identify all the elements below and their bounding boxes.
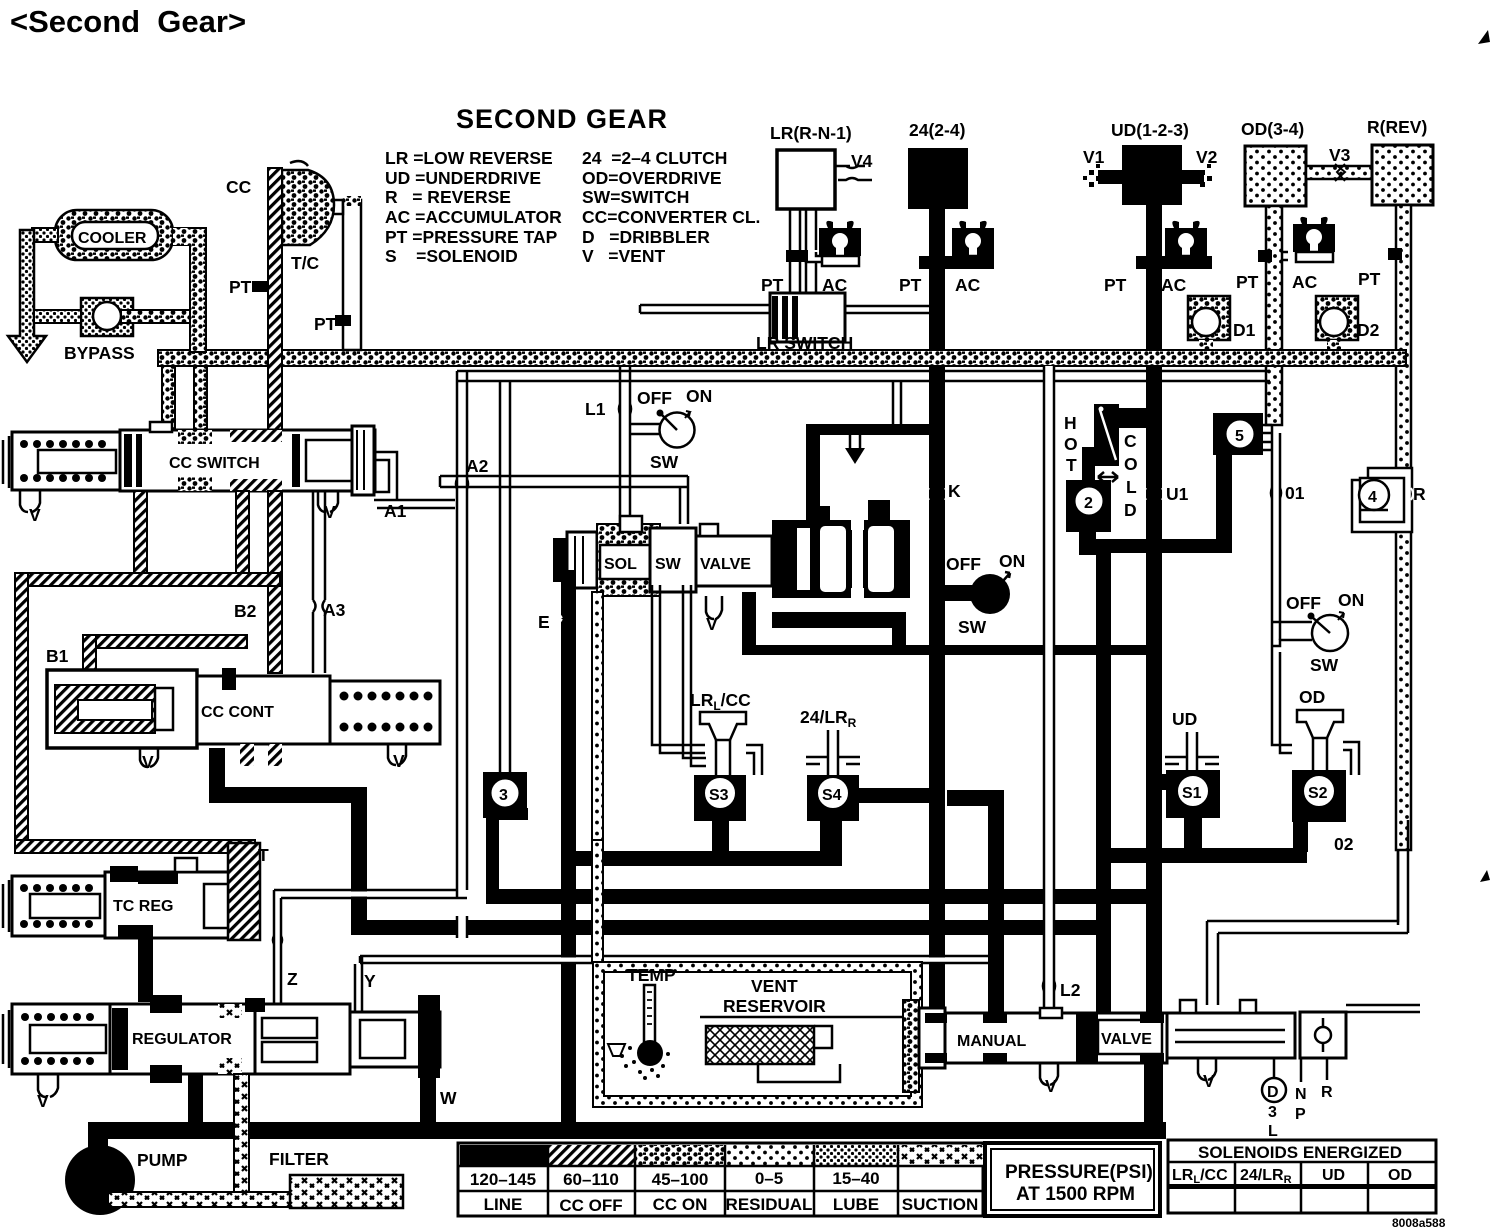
svg-text:UD(1-2-3): UD(1-2-3) bbox=[1111, 120, 1189, 140]
svg-text:V: V bbox=[1203, 1071, 1215, 1091]
svg-text:S =SOLENOID: S =SOLENOID bbox=[385, 246, 518, 266]
TC reg spring perch bbox=[3, 880, 9, 932]
svg-text:TC REG: TC REG bbox=[113, 898, 173, 915]
svg-text:CC: CC bbox=[226, 177, 252, 197]
UD clutch box (black) bbox=[1122, 145, 1182, 205]
L2 thin line bbox=[1045, 366, 1053, 1012]
svg-text:SW: SW bbox=[650, 452, 679, 472]
lube drain arrow bbox=[8, 230, 46, 362]
valve CC CONT bbox=[47, 668, 440, 766]
S1 leg down bbox=[1184, 818, 1202, 854]
svg-text:SECOND GEAR: SECOND GEAR bbox=[456, 104, 668, 134]
svg-text:<Second Gear>: <Second Gear> bbox=[10, 4, 246, 39]
svg-text:OFF: OFF bbox=[946, 554, 981, 574]
svg-text:OFF: OFF bbox=[1286, 593, 1321, 613]
regulator to bottom line black bbox=[188, 1074, 203, 1126]
cooler left lube channel down bbox=[20, 230, 34, 336]
CC hatch line (converter clutch apply) bbox=[268, 168, 282, 432]
svg-text:SOLENOIDS ENERGIZED: SOLENOIDS ENERGIZED bbox=[1198, 1143, 1402, 1162]
LEGEND bbox=[385, 148, 760, 266]
UD AC connector bbox=[1136, 256, 1212, 269]
svg-text:Z: Z bbox=[287, 969, 298, 989]
OD funnel bbox=[1297, 710, 1343, 738]
svg-text:R: R bbox=[1321, 1084, 1333, 1101]
bypass line right (pebble) bbox=[121, 310, 190, 323]
black horizontal y645 bbox=[742, 645, 1162, 655]
svg-text:REGULATOR: REGULATOR bbox=[132, 1031, 232, 1048]
switch SW (overdrive) bbox=[1272, 590, 1364, 675]
thin pair to S3 left bbox=[652, 585, 705, 753]
01 thin line bbox=[1263, 425, 1272, 450]
thick horizontal y851 left segment bbox=[566, 851, 842, 866]
svg-text:CC OFF: CC OFF bbox=[559, 1196, 622, 1215]
svg-text:SW: SW bbox=[958, 617, 987, 637]
svg-text:R: R bbox=[1413, 484, 1426, 504]
solenoid S1 bbox=[1166, 770, 1220, 818]
bypass body bbox=[81, 298, 133, 336]
svg-text:60–110: 60–110 bbox=[563, 1170, 619, 1189]
pebble drain line to reservoir bbox=[592, 592, 603, 962]
solenoid S2 bbox=[1292, 770, 1346, 822]
vent V below regulator bbox=[38, 1074, 58, 1097]
svg-text:A3: A3 bbox=[323, 600, 346, 620]
pump feed line black bbox=[88, 1122, 1166, 1139]
loop drop to feed bar bbox=[893, 381, 901, 424]
suction line pump-filter bbox=[108, 1192, 294, 1207]
24 clutch main line bbox=[929, 209, 945, 1035]
svg-text:AC =ACCUMULATOR: AC =ACCUMULATOR bbox=[385, 207, 562, 227]
svg-text:PT: PT bbox=[1236, 272, 1259, 292]
svg-text:ON: ON bbox=[999, 551, 1025, 571]
svg-text:PT: PT bbox=[229, 277, 252, 297]
R PT tick bbox=[1388, 248, 1402, 260]
svg-text:D1: D1 bbox=[1233, 320, 1256, 340]
node 5 bbox=[1213, 413, 1263, 455]
svg-text:5: 5 bbox=[1235, 428, 1244, 445]
svg-text:S1: S1 bbox=[1182, 785, 1202, 802]
svg-text:AT 1500 RPM: AT 1500 RPM bbox=[1016, 1184, 1135, 1205]
vent V below CC CONT left bbox=[140, 748, 158, 767]
hatch horizontal y840 bbox=[15, 840, 255, 853]
dribbler D1 bbox=[1188, 296, 1256, 354]
svg-text:LR(R-N-1): LR(R-N-1) bbox=[770, 123, 852, 143]
svg-text:SW: SW bbox=[1310, 655, 1339, 675]
vent V below CC switch right bbox=[318, 490, 338, 512]
S4 stem bbox=[828, 730, 838, 775]
svg-text:LRL/CC: LRL/CC bbox=[690, 690, 751, 713]
thermal valve output black path bbox=[1079, 530, 1096, 555]
right thin vertical pair lower bbox=[1398, 820, 1408, 933]
svg-text:L: L bbox=[1268, 1123, 1278, 1140]
R notch bbox=[1394, 488, 1413, 500]
valve MANUAL VALVE bbox=[919, 1000, 1346, 1068]
svg-text:V3: V3 bbox=[1329, 145, 1351, 165]
24 line branch to manual valve x990 bbox=[947, 790, 1004, 806]
svg-text:CC SWITCH: CC SWITCH bbox=[169, 455, 260, 472]
valve CC SWITCH bbox=[12, 422, 375, 495]
L1 line bbox=[620, 366, 630, 524]
hatch B1 branch bbox=[83, 635, 247, 648]
switch SW on K line bbox=[945, 551, 1025, 637]
A2 vertical thin pair bbox=[457, 371, 467, 898]
svg-text:V: V bbox=[37, 1091, 49, 1111]
hatch drop x237 bbox=[236, 491, 249, 586]
valve TC REG bbox=[12, 843, 269, 940]
S3 funnel bbox=[700, 712, 746, 740]
svg-text:N: N bbox=[1295, 1086, 1307, 1103]
svg-text:T/C: T/C bbox=[291, 253, 320, 273]
svg-text:24(2-4): 24(2-4) bbox=[909, 120, 965, 140]
svg-text:D: D bbox=[1267, 1084, 1279, 1101]
V1 stub bbox=[1098, 170, 1122, 184]
A2 channel overpass bbox=[458, 918, 466, 937]
svg-text:O: O bbox=[1064, 434, 1078, 454]
svg-text:COOLER: COOLER bbox=[78, 230, 147, 247]
svg-text:Y: Y bbox=[364, 971, 376, 991]
vent V below CC switch left bbox=[20, 490, 40, 512]
24 accumulator AC bbox=[952, 221, 994, 266]
long thin line y956 bbox=[558, 958, 578, 963]
LR channels down bbox=[790, 209, 816, 295]
svg-text:01: 01 bbox=[1285, 483, 1305, 503]
A3 channel bbox=[313, 491, 325, 673]
S4 pedestal bbox=[820, 821, 842, 857]
svg-text:V =VENT: V =VENT bbox=[582, 246, 665, 266]
svg-text:AC: AC bbox=[955, 275, 981, 295]
svg-text:D =DRIBBLER: D =DRIBBLER bbox=[582, 227, 710, 247]
S4 to 24 line link bbox=[859, 788, 931, 803]
svg-text:15–40: 15–40 bbox=[832, 1169, 879, 1188]
svg-text:UD: UD bbox=[1322, 1167, 1345, 1184]
CC switch spring perch bbox=[3, 436, 9, 488]
thermometer bbox=[644, 985, 655, 1043]
svg-text:120–145: 120–145 bbox=[470, 1170, 536, 1189]
OD accumulator AC bbox=[1293, 217, 1335, 262]
switch SW (converter) bbox=[630, 386, 712, 472]
TC REG output black bbox=[138, 932, 153, 1002]
svg-text:V: V bbox=[29, 505, 41, 525]
svg-text:OD=OVERDRIVE: OD=OVERDRIVE bbox=[582, 168, 722, 188]
thermal valve body bbox=[1094, 404, 1119, 466]
UD stem bbox=[1187, 732, 1197, 772]
vent V below valve bbox=[706, 596, 722, 619]
svg-text:PUMP: PUMP bbox=[137, 1150, 188, 1170]
svg-text:45–100: 45–100 bbox=[652, 1170, 709, 1189]
stepped link to manual valve bbox=[1207, 850, 1408, 933]
S3 leg down bbox=[712, 821, 729, 859]
svg-text:LR =LOW REVERSE: LR =LOW REVERSE bbox=[385, 148, 553, 168]
manual valve to bottom line black bbox=[1144, 1063, 1163, 1125]
svg-text:U1: U1 bbox=[1166, 484, 1189, 504]
svg-text:RESERVOIR: RESERVOIR bbox=[723, 996, 826, 1016]
A2-Z link bbox=[348, 892, 370, 897]
LR clutch box bbox=[777, 150, 835, 209]
svg-text:V: V bbox=[393, 751, 405, 771]
svg-text:PT =PRESSURE TAP: PT =PRESSURE TAP bbox=[385, 227, 558, 247]
hatch drop from CC switch x135 bbox=[134, 491, 147, 586]
svg-text:AC: AC bbox=[1161, 275, 1187, 295]
svg-text:H: H bbox=[1064, 413, 1077, 433]
LR PT tick bbox=[786, 250, 808, 262]
svg-text:T: T bbox=[258, 845, 269, 865]
svg-text:ON: ON bbox=[686, 386, 712, 406]
white channel K to valve bbox=[850, 434, 860, 448]
svg-text:FILTER: FILTER bbox=[269, 1149, 329, 1169]
black left leg thermal bbox=[1082, 447, 1095, 507]
svg-text:V: V bbox=[1045, 1076, 1057, 1096]
svg-text:UD: UD bbox=[1172, 709, 1197, 729]
svg-text:L2: L2 bbox=[1060, 980, 1081, 1000]
valve feed black from K line bbox=[806, 424, 942, 435]
svg-text:E: E bbox=[538, 612, 550, 632]
svg-text:OD(3-4): OD(3-4) bbox=[1241, 119, 1304, 139]
svg-text:LRL/CC: LRL/CC bbox=[1172, 1167, 1228, 1186]
selector D 3 L N P R bbox=[1262, 1058, 1333, 1140]
svg-text:OFF: OFF bbox=[637, 388, 672, 408]
svg-text:V1: V1 bbox=[1083, 147, 1105, 167]
OD clutch box (dotted) bbox=[1245, 146, 1306, 206]
dribbler D2 bbox=[1316, 296, 1380, 354]
V3 connector channel bbox=[1306, 166, 1372, 179]
V1 starburst bbox=[1083, 164, 1101, 187]
vent reservoir enclosure bbox=[593, 962, 922, 1107]
bypass ball bbox=[93, 302, 121, 330]
svg-text:A2: A2 bbox=[466, 456, 489, 476]
filter bbox=[290, 1175, 403, 1208]
svg-text:MANUAL: MANUAL bbox=[957, 1033, 1027, 1050]
svg-text:4: 4 bbox=[1368, 489, 1377, 506]
svg-text:0–5: 0–5 bbox=[755, 1169, 783, 1188]
svg-text:PT: PT bbox=[1104, 275, 1127, 295]
vent V below CC CONT right bbox=[388, 744, 406, 765]
svg-text:PRESSURE(PSI): PRESSURE(PSI) bbox=[1005, 1162, 1153, 1183]
UD line to S1 link bbox=[1146, 774, 1176, 790]
bypass line left bbox=[34, 310, 81, 323]
svg-text:UD =UNDERDRIVE: UD =UNDERDRIVE bbox=[385, 168, 541, 188]
legend table bbox=[458, 1143, 983, 1216]
svg-text:SOL: SOL bbox=[604, 556, 637, 573]
thin pair to S3 right bbox=[683, 585, 706, 766]
reservoir to manual valve pebble bbox=[903, 1000, 919, 1092]
V2 starburst bbox=[1194, 164, 1212, 187]
svg-text:LUBE: LUBE bbox=[833, 1195, 879, 1214]
thick horizontal y920 bbox=[352, 920, 1110, 935]
svg-text:A1: A1 bbox=[384, 501, 407, 521]
A1 channel bbox=[374, 452, 455, 508]
svg-text:V: V bbox=[142, 752, 154, 772]
OD PT tick bbox=[1258, 250, 1272, 262]
V2 stub bbox=[1182, 170, 1204, 184]
suction channel from regulator bbox=[234, 1074, 249, 1200]
svg-text:R(REV): R(REV) bbox=[1367, 117, 1427, 137]
svg-text:ON: ON bbox=[1338, 590, 1364, 610]
E line thick black bbox=[561, 570, 576, 1130]
thick horizontal y889 bbox=[486, 889, 1160, 904]
LR accumulator AC bbox=[819, 221, 861, 266]
svg-text:BYPASS: BYPASS bbox=[64, 343, 135, 363]
svg-text:C: C bbox=[1124, 431, 1137, 451]
T/C return channel bbox=[343, 200, 361, 350]
long thin loop line under main line bbox=[457, 371, 1270, 381]
svg-text:B2: B2 bbox=[234, 601, 257, 621]
svg-text:02: 02 bbox=[1334, 834, 1354, 854]
svg-text:OD: OD bbox=[1388, 1167, 1412, 1184]
R stem dotted channel bbox=[1396, 205, 1411, 850]
svg-text:O: O bbox=[1124, 454, 1138, 474]
LR switch to 24 line link bbox=[845, 306, 929, 313]
regulator spring perch bbox=[3, 1010, 9, 1068]
01 line lower segment bbox=[1272, 646, 1292, 753]
feed lines into valve from left bbox=[440, 476, 688, 524]
U1 notch on UD line bbox=[1144, 488, 1164, 500]
svg-text:W: W bbox=[440, 1088, 457, 1108]
svg-text:L: L bbox=[1126, 477, 1137, 497]
T/C return PT tick bbox=[335, 315, 351, 326]
svg-text:SUCTION: SUCTION bbox=[902, 1195, 979, 1214]
svg-text:P: P bbox=[1295, 1106, 1306, 1123]
pressure box bbox=[985, 1143, 1160, 1216]
valve bottom black stub bbox=[742, 592, 756, 654]
svg-text:8008a588: 8008a588 bbox=[1392, 1216, 1446, 1230]
R clutch box (dotted) bbox=[1372, 145, 1433, 205]
24 AC connector bbox=[919, 256, 994, 269]
24 clutch box (black) bbox=[908, 148, 968, 209]
W line bbox=[420, 1078, 436, 1126]
svg-text:S3: S3 bbox=[709, 787, 729, 804]
svg-text:SW: SW bbox=[655, 556, 682, 573]
cooler right pebble channel bbox=[190, 228, 206, 352]
hatch left vertical bbox=[15, 573, 28, 845]
svg-text:24 =2–4 CLUTCH: 24 =2–4 CLUTCH bbox=[582, 148, 727, 168]
svg-text:PT: PT bbox=[314, 314, 337, 334]
svg-text:V: V bbox=[706, 614, 718, 634]
svg-text:3: 3 bbox=[499, 787, 508, 804]
thick horizontal y848 right segment bbox=[1110, 848, 1307, 863]
svg-text:B1: B1 bbox=[46, 646, 69, 666]
svg-text:AC: AC bbox=[1292, 272, 1318, 292]
CC CONT output thick line bbox=[210, 748, 366, 935]
pebble U channel to CC switch bbox=[162, 366, 175, 430]
vent V below manual bbox=[1040, 1063, 1058, 1085]
3 leg down bbox=[486, 808, 528, 820]
solenoid valve assembly (SOL SW VALVE) bbox=[553, 500, 910, 606]
svg-text:VENT: VENT bbox=[751, 976, 798, 996]
LR switch body bbox=[640, 293, 853, 353]
svg-text:3: 3 bbox=[1268, 1104, 1277, 1121]
valve REGULATOR bbox=[12, 995, 440, 1083]
V4 squiggle bbox=[835, 166, 872, 180]
black right half bbox=[772, 520, 910, 598]
reservoir fluid bbox=[700, 1016, 905, 1019]
temp spray bbox=[620, 1046, 670, 1080]
cooler body bbox=[55, 210, 173, 260]
solenoids energized table bbox=[1168, 1140, 1436, 1213]
svg-text:D2: D2 bbox=[1357, 320, 1380, 340]
svg-text:PT: PT bbox=[899, 275, 922, 295]
svg-text:RESIDUAL: RESIDUAL bbox=[726, 1195, 813, 1214]
pump bbox=[65, 1145, 135, 1215]
svg-text:PT: PT bbox=[1358, 269, 1381, 289]
hot-cold arrow bbox=[1098, 472, 1118, 482]
CC PT tick bbox=[252, 281, 268, 292]
svg-text:OD: OD bbox=[1299, 687, 1325, 707]
svg-text:T: T bbox=[1066, 455, 1077, 475]
black drop x892 bbox=[892, 612, 906, 654]
svg-text:V2: V2 bbox=[1196, 147, 1218, 167]
node 2 bbox=[1066, 480, 1111, 532]
shift lever box bbox=[1300, 1012, 1346, 1058]
main converter pressure line (pebble) bbox=[158, 350, 1406, 366]
svg-text:VALVE: VALVE bbox=[1101, 1031, 1152, 1048]
svg-text:K: K bbox=[948, 481, 961, 501]
svg-text:TEMP: TEMP bbox=[627, 965, 676, 985]
svg-text:VALVE: VALVE bbox=[700, 556, 751, 573]
black horizontal y612 bbox=[772, 612, 906, 628]
torque converter dome bbox=[282, 170, 334, 245]
svg-text:SW=SWITCH: SW=SWITCH bbox=[582, 187, 689, 207]
Z line bbox=[274, 890, 281, 1004]
hatch horizontal y573 bbox=[15, 573, 280, 586]
svg-text:S2: S2 bbox=[1308, 785, 1328, 802]
UD clutch main line bbox=[1146, 205, 1162, 1015]
thermal valve black top bbox=[1110, 408, 1152, 428]
svg-text:R = REVERSE: R = REVERSE bbox=[385, 187, 511, 207]
lockup symbol 4 bbox=[1352, 468, 1412, 532]
svg-text:S4: S4 bbox=[822, 787, 842, 804]
Y line bbox=[355, 957, 362, 1012]
manual valve outlet right bbox=[1346, 1005, 1420, 1012]
S2 leg down bbox=[1293, 822, 1308, 852]
svg-text:CC=CONVERTER CL.: CC=CONVERTER CL. bbox=[582, 207, 760, 227]
hatch drop x268 (B2) bbox=[268, 491, 282, 673]
svg-text:D: D bbox=[1124, 500, 1137, 520]
drain channel overpass bbox=[592, 840, 603, 962]
MAIN TITLE bbox=[10, 4, 668, 134]
svg-text:2: 2 bbox=[1084, 495, 1093, 512]
OD stem dotted channel bbox=[1266, 206, 1282, 425]
svg-text:L1: L1 bbox=[585, 399, 606, 419]
node 3 bbox=[483, 772, 527, 818]
corner mark top bbox=[1478, 30, 1490, 44]
svg-text:CC CONT: CC CONT bbox=[201, 704, 274, 721]
svg-text:LINE: LINE bbox=[484, 1195, 523, 1214]
corner mark mid bbox=[1480, 870, 1490, 882]
svg-text:CC ON: CC ON bbox=[653, 1195, 708, 1214]
vertical x1096 black bbox=[1096, 540, 1111, 1015]
solenoid S4 bbox=[807, 775, 859, 821]
UD accumulator AC bbox=[1165, 221, 1207, 266]
second thin vertical (to 3) bbox=[500, 381, 510, 772]
solenoid S3 bbox=[694, 775, 746, 821]
